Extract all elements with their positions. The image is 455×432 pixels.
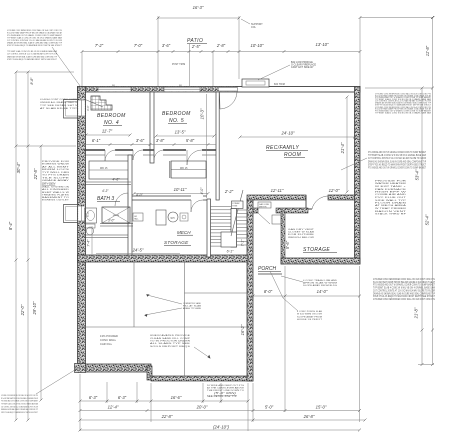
svg-text:RADON VENT: RADON VENT [375,210,407,213]
MAIN WALLS [75,79,361,381]
svg-text:W 2x4 KEYWAY DAMP PROOF BELOW: W 2x4 KEYWAY DAMP PROOF BELOW GRADE 4 DI… [373,281,435,284]
bedroom5 east wall [216,92,219,200]
ext line left [81,52,83,87]
svg-text:DRAINS AS SHOWN SEAL SLAB W CU: DRAINS AS SHOWN SEAL SLAB W CURE AND SEA… [368,160,426,163]
dim 2'-5" [191,44,201,49]
svg-text:COL: COL [251,27,257,29]
stair treads right run [237,210,248,245]
MECH equipment [156,210,188,225]
dim 53'-4" rotated [415,169,420,180]
east wall dim 16'-2" rotated [240,324,245,335]
mech room dim 24'-5" [96,248,180,254]
svg-text:FTG INSIDE AND OUT W GRAVEL CO: FTG INSIDE AND OUT W GRAVEL COVER CONN T… [373,284,435,287]
svg-text:FTG INSIDE AND OUT W GRAVEL CO: FTG INSIDE AND OUT W GRAVEL COVER CONN T… [368,167,426,170]
svg-text:3'-8": 3'-8" [156,138,165,143]
svg-text:SLOPE AWAY FROM BLDG: SLOPE AWAY FROM BLDG [303,284,337,287]
linen wall [84,178,131,194]
left top connector y72 [16,71,74,73]
ROOM LABELS [97,38,337,346]
svg-text:8'-0": 8'-0" [264,289,273,294]
svg-text:21'-8": 21'-8" [414,307,419,319]
left top rotated dim [30,77,34,85]
tall cab [133,213,143,221]
note bottom N2 [207,384,245,398]
left exterior wall [78,87,86,373]
left wall window bath [78,206,85,221]
support col note [241,19,263,29]
bottom-right exterior wall [151,376,253,381]
note topleft A leader [52,47,83,90]
svg-text:STORAGE: STORAGE [303,247,330,253]
svg-text:WATER HEATER: WATER HEATER [375,182,407,185]
INTERIOR WALLS [84,92,219,257]
svg-text:CUT CONTROL JOINTS AT 12-0 OC: CUT CONTROL JOINTS AT 12-0 OC MAX EA WAY… [7,53,57,56]
svg-text:2'-8": 2'-8" [216,43,226,48]
stair top box STAIR TRIM [232,201,244,209]
svg-text:15'-0": 15'-0" [316,405,327,410]
svg-text:13'-10": 13'-10" [316,42,330,47]
svg-text:TALL: TALL [134,218,139,221]
svg-text:W 2x4 KEYWAY DAMP PROOF BELOW: W 2x4 KEYWAY DAMP PROOF BELOW GRADE 4 DI… [1,397,38,400]
bath bottom wall [84,235,128,238]
svg-text:DRY-DEN: DRY-DEN [42,181,56,185]
BOTTOM DIMENSION ROWS [79,266,367,432]
closet labels [100,168,188,170]
svg-text:7'-2": 7'-2" [95,43,104,48]
svg-text:AT MECH AREA: AT MECH AREA [375,204,407,207]
svg-text:AREAS TYP HERE: AREAS TYP HERE [183,307,201,310]
dim 22'-8" rotated [33,168,38,180]
svg-text:NO. 4: NO. 4 [104,120,119,126]
svg-text:REC/FAMILY: REC/FAMILY [266,145,299,151]
dim row4 [79,425,362,432]
svg-text:PVC FLUE OUT: PVC FLUE OUT [375,197,407,199]
room label STORAGE (right) [303,247,337,253]
svg-text:22'-0": 22'-0" [20,304,25,316]
svg-text:TYP SEE DETAIL SHT 5: TYP SEE DETAIL SHT 5 [40,104,78,107]
svg-text:22'-8": 22'-8" [161,414,173,419]
svg-text:4 HIGH CONT CONC CURB: 4 HIGH CONT CONC CURB [40,99,78,101]
PATIO OUTLINE [157,5,285,86]
note bottom N1 [150,334,191,348]
svg-text:GAS DRY VENT: GAS DRY VENT [288,228,315,231]
toilet [85,224,95,235]
water softener box in storage [272,215,281,224]
porch dim 8'-0" [252,289,287,298]
svg-text:4 POURED CONC REINFORCED CONC: 4 POURED CONC REINFORCED CONC WALL ON 16… [1,394,38,397]
top dim line [81,50,362,53]
closet door arc 1 [133,150,143,160]
svg-text:SEE DETAIL 3/S2 TYP: SEE DETAIL 3/S2 TYP [207,395,237,398]
patio left line [157,16,159,86]
svg-text:UNEXCAVATED PROVIDE: UNEXCAVATED PROVIDE [150,334,191,337]
svg-text:TO 95 PROCTOR UNDER: TO 95 PROCTOR UNDER [150,341,190,343]
rec room height dim rotated [340,96,349,194]
svg-text:STEP FTGS AS REQD TO MAINTAIN: STEP FTGS AS REQD TO MAINTAIN FROST DEPT… [373,295,435,298]
stair west dim 4'-0" rotated [200,187,204,195]
svg-text:CANT EXT SIDE W/: CANT EXT SIDE W/ [291,66,314,69]
note porch slab [297,310,323,321]
storage dim 12'-0" [329,188,340,193]
rotated window dim bedroom4 [86,105,90,111]
svg-text:W EXP TANK +: W EXP TANK + [375,185,407,188]
note left wall curb [40,99,78,110]
window well bath [64,205,78,223]
svg-text:6'-3": 6'-3" [89,395,98,400]
svg-text:COMPACTED SAND: COMPACTED SAND [183,302,201,305]
furnace box [156,210,166,225]
bedroom4 window [98,85,131,92]
dim 8'-4" rotated [8,221,13,230]
masonry chunk in bedroom4 [84,96,112,110]
rotated window dim bath [86,211,90,217]
svg-text:12'-11": 12'-11" [271,188,284,193]
interior line vertical b [184,262,186,376]
right top dim line [359,16,435,19]
dim row3 [79,414,367,422]
shower [102,207,130,223]
mech north wall [132,196,207,200]
svg-text:AT SLAB EDGE TYP: AT SLAB EDGE TYP [40,107,78,110]
svg-text:STRAW: STRAW [232,202,239,205]
stair width dim [224,189,234,194]
svg-text:BSMT WALLS W: BSMT WALLS W [42,191,70,194]
svg-text:PROVIDE FOR: PROVIDE FOR [375,181,407,183]
top exterior wall (bedroom side, concrete) [78,87,238,93]
right ext vertical at x360 [359,18,361,87]
svg-text:10'-10": 10'-10" [251,43,265,48]
svg-text:TYP BSMT SLAB 4 CONC W 6 MIL V: TYP BSMT SLAB 4 CONC W 6 MIL VB ON 4 GRA… [375,111,431,114]
dim 30'-4" rotated [16,162,21,173]
rec room width dim [239,131,357,139]
svg-text:STEP FTGS AS REQD TO MAINTAIN: STEP FTGS AS REQD TO MAINTAIN FROST DEPT… [7,58,57,61]
svg-text:TYP BSMT SLAB 4 CONC W 6 MIL V: TYP BSMT SLAB 4 CONC W 6 MIL VB ON 4 GRA… [7,50,58,53]
note right R1 [375,93,432,115]
patio right line [238,16,240,79]
svg-text:O CLEAR FIREPLACE: O CLEAR FIREPLACE [291,64,317,67]
svg-text:36x36: 36x36 [113,215,120,217]
LOWER AREA LINES [80,262,248,376]
svg-text:CUT CONTROL JOINTS AT 12-0 OC: CUT CONTROL JOINTS AT 12-0 OC MAX EA WAY… [1,405,38,408]
note right R4 [373,278,436,301]
note fireplace [291,62,317,69]
fireplace bump [242,79,269,87]
svg-text:5'-0": 5'-0" [265,405,274,410]
unexcavated label [100,334,118,346]
svg-text:CLOSET W SLAB: CLOSET W SLAB [288,231,315,234]
svg-text:PROVIDE FOR: PROVIDE FOR [42,161,70,163]
svg-text:6'-1": 6'-1" [92,138,101,143]
svg-text:CUT CONTROL JOINTS AT 12-0 OC: CUT CONTROL JOINTS AT 12-0 OC MAX EA WAY… [373,289,435,292]
gas line box [258,202,271,208]
dim row1 [79,395,250,403]
R2 leader [341,158,367,170]
svg-text:ALL FINISHED: ALL FINISHED [42,188,70,191]
svg-text:WALL SYSTEM ON: WALL SYSTEM ON [42,186,69,189]
rec room south wall west part [247,195,306,200]
svg-text:AT THE CANTILEVER ABOVE: AT THE CANTILEVER ABOVE [207,387,245,390]
interior line vertical a [133,262,135,327]
svg-text:16'-2": 16'-2" [240,324,245,335]
svg-text:16'-3": 16'-3" [193,5,204,10]
svg-text:2'-2": 2'-2" [224,189,234,194]
BATH FIXTURES [84,178,144,238]
interior line horizontal b [185,292,248,294]
bottom wall step connector [147,366,152,380]
svg-text:3'-6": 3'-6" [136,138,145,143]
svg-text:DRAINS AS SHOWN SEAL SLAB W CU: DRAINS AS SHOWN SEAL SLAB W CURE AND SEA… [1,408,38,411]
svg-text:APRON SLAB W WWM: APRON SLAB W WWM [303,282,337,285]
svg-text:METER: METER [259,206,267,208]
svg-text:BEDROOM: BEDROOM [97,113,126,119]
svg-text:TYP BSMT SLAB 4 CONC W 6 MIL V: TYP BSMT SLAB 4 CONC W 6 MIL VB ON 4 GRA… [373,287,436,290]
svg-text:DRAINS AS SHOWN SEAL SLAB W CU: DRAINS AS SHOWN SEAL SLAB W CURE AND SEA… [7,55,57,58]
svg-text:BEDROOM: BEDROOM [162,111,191,117]
bedroom5 door arc [187,150,202,165]
svg-text:WD 15: WD 15 [180,168,188,170]
svg-text:STEP FTGS AS REQD TO MAINTAIN: STEP FTGS AS REQD TO MAINTAIN FROST DEPT… [368,163,426,166]
dim row2 [79,405,362,413]
note trash [303,279,337,287]
room label BEDROOM NO.4 [97,113,126,126]
left dim line x41 [40,145,43,402]
corridor dim rotated 10'-3" [200,94,207,198]
fireplace leader [258,65,290,80]
top exterior wall (rec room side, framed) [237,87,360,93]
svg-text:(24'-10"): (24'-10") [213,425,229,430]
svg-text:HOUSE 1/4 PER FT: HOUSE 1/4 PER FT [297,319,323,321]
left wall window bedroom4 [78,100,85,116]
bedroom5 width dim [155,130,216,138]
storage inner west wall [281,211,285,264]
svg-text:11'-8": 11'-8" [425,45,430,56]
svg-text:4 CONC PORCH SLAB: 4 CONC PORCH SLAB [297,310,322,313]
svg-text:RO: RO [179,85,183,87]
svg-text:4 POURED CONC REINFORCED CONC: 4 POURED CONC REINFORCED CONC WALL ON 16… [373,298,435,301]
svg-text:CLEAN SAND FILL COMP: CLEAN SAND FILL COMP [150,337,191,340]
svg-text:WENCH BELOW: WENCH BELOW [288,237,315,239]
svg-text:WH: WH [171,218,175,220]
room label REC/FAMILY ROOM [266,145,308,158]
svg-text:CAR FILL: CAR FILL [100,342,113,346]
bedroom4 door arc [105,150,116,161]
note right R3 [375,181,408,216]
svg-text:12'-4": 12'-4" [108,405,119,410]
dim 3'-0" [162,43,171,48]
N1 leader [194,347,211,359]
porch leader [270,271,298,311]
dim 7'-2" [95,43,104,48]
svg-text:4'-6": 4'-6" [112,178,120,182]
svg-text:W TRAP PRIMER: W TRAP PRIMER [375,207,407,210]
stair center divider [231,209,237,248]
mid horizontal wall (unexcavated separation) [78,255,249,262]
bottom-left corner block [75,364,86,373]
svg-text:8'-8": 8'-8" [30,77,34,85]
bedrooms south wall [84,150,216,155]
svg-text:14'-0": 14'-0" [317,289,328,294]
closet west wall [170,161,172,178]
svg-text:WD 15: WD 15 [100,168,108,170]
right dim line x422 [418,87,434,367]
svg-text:4 CONC TRASH LINE AND: 4 CONC TRASH LINE AND [303,279,337,282]
svg-text:ALL SLABS TYP SEE: ALL SLABS TYP SEE [150,342,191,345]
svg-text:STORAGE: STORAGE [164,240,189,245]
shower south wall [100,224,133,227]
note topleft A [7,29,63,47]
svg-text:6'-3": 6'-3" [118,395,127,400]
STAIRS [211,190,248,247]
room label MECH [177,230,193,235]
patio width dim 16'-3" [157,5,241,20]
floor drain [180,213,188,221]
note gas vent [288,228,315,239]
bedroom divider wall [150,92,154,163]
note topleft B [7,50,58,61]
bottom-left leader [36,368,78,394]
svg-text:FLOOR DRAIN: FLOOR DRAIN [375,202,407,205]
svg-text:FTG INSIDE AND OUT W GRAVEL CO: FTG INSIDE AND OUT W GRAVEL COVER CONN T… [368,151,426,154]
storage dim 12'-11" [271,188,284,193]
bath dim 4'-0" [136,193,144,197]
svg-text:4'-0": 4'-0" [200,187,204,195]
bath east wall [128,155,132,255]
svg-text:STEP FTGS AS REQD TO MAINTAIN: STEP FTGS AS REQD TO MAINTAIN FROST DEPT… [7,44,62,47]
svg-text:10'-3": 10'-3" [200,108,205,119]
svg-text:30'-4": 30'-4" [16,162,21,173]
dim 2'-8" [216,43,226,48]
note right R2 [368,151,427,170]
dim 29'-10" rotated [32,301,37,316]
svg-text:COMB AIR AND: COMB AIR AND [375,193,407,196]
svg-text:ROOM: ROOM [284,152,302,158]
svg-text:5'-8": 5'-8" [186,138,195,143]
stair west wall [207,199,211,257]
post trim note [172,64,185,66]
left connector y146 [16,145,76,147]
window well bedroom4 [64,100,78,119]
svg-text:DRAINS AS SHOWN SEAL SLAB W CU: DRAINS AS SHOWN SEAL SLAB W CURE AND SEA… [373,292,435,295]
svg-text:26'-8": 26'-8" [303,414,315,419]
svg-text:4'-3": 4'-3" [102,189,109,193]
svg-text:STEP FTGS AS REQD TO MAINTAIN: STEP FTGS AS REQD TO MAINTAIN FROST DEPT… [1,411,38,414]
svg-text:10'-11": 10'-11" [174,187,187,192]
svg-text:TRIM: TRIM [232,206,237,208]
svg-text:TYP BSMT SLAB 4 CONC W 6 MIL V: TYP BSMT SLAB 4 CONC W 6 MIL VB ON 4 GRA… [368,154,427,157]
svg-text:7'-0": 7'-0" [134,43,143,48]
svg-text:AT ALL BSMT: AT ALL BSMT [42,165,70,168]
svg-text:7'-1": 7'-1" [241,239,245,247]
storage door leaf [258,213,270,224]
porch dim 14'-0" [285,289,361,298]
room label PORCH [258,266,281,272]
svg-text:29'-10": 29'-10" [32,301,37,316]
right exterior wall [355,87,361,265]
porch step edge [258,273,282,275]
RIGHT DIMENSION COLUMN [365,16,434,366]
svg-text:3'-6": 3'-6" [162,43,171,48]
svg-text:MECH: MECH [177,230,191,235]
svg-text:5'-0": 5'-0" [86,211,90,217]
note left column [42,161,70,202]
patio inner line b [212,51,214,86]
svg-text:20'-0": 20'-0" [196,405,208,410]
svg-text:EGRESS WNDW: EGRESS WNDW [42,164,70,166]
svg-text:HIGH EFF W: HIGH EFF W [375,192,408,194]
trash leader [281,276,303,282]
stair diagonal [231,190,243,236]
LEFT DIMENSION COLUMN [8,71,76,422]
svg-text:PORCH: PORCH [258,266,276,272]
svg-text:24'-5": 24'-5" [132,248,144,253]
svg-text:3'-0": 3'-0" [108,219,115,223]
right dim line x432.5 [431,16,434,366]
ext verticals [80,266,360,431]
svg-text:FILL AT SLAB: FILL AT SLAB [183,305,202,308]
stair bottom dim 6'-1" [227,250,235,254]
svg-text:TREATED PLATES: TREATED PLATES [42,193,70,196]
svg-text:PAN FURNACE: PAN FURNACE [375,188,407,191]
patio inner line a [189,44,191,86]
right horiz connector at y88 [365,87,433,89]
svg-text:6'-1": 6'-1" [227,250,235,254]
svg-text:TYP WELL DRN: TYP WELL DRN [42,172,69,174]
center leaders [144,294,182,317]
bath door arc [115,193,128,206]
svg-text:BATH 3: BATH 3 [97,196,114,202]
svg-text:SLOPE AWAY FROM: SLOPE AWAY FROM [297,315,322,318]
svg-text:53'-4": 53'-4" [415,169,420,180]
interior line horizontal a [80,326,248,328]
rec south wall door recess [306,195,329,209]
note bottom-left corner [1,394,38,414]
mech door arc [191,200,203,212]
svg-text:24'-10": 24'-10" [281,131,296,136]
svg-text:SOILS REPORT REQS: SOILS REPORT REQS [150,346,191,348]
svg-text:7'-4": 7'-4" [87,239,91,247]
svg-text:CUT CONTROL JOINTS AT 12-0 OC: CUT CONTROL JOINTS AT 12-0 OC MAX EA WAY… [368,157,426,160]
svg-text:NO. 5: NO. 5 [169,118,184,124]
svg-text:11'-7": 11'-7" [102,129,113,134]
stair treads left run [211,207,232,247]
left dim line x28 [27,71,30,422]
dim 11'-8" rotated [425,45,430,56]
sink counter [85,208,97,223]
INTERIOR DIMENSIONS [83,94,362,335]
svg-text:22'-8": 22'-8" [33,168,38,180]
svg-text:52'-4": 52'-4" [425,214,430,225]
room label STORAGE (mech) [164,240,191,246]
room label BEDROOM NO.5 [162,111,191,124]
note center arrows [183,302,202,310]
svg-text:12'-0": 12'-0" [329,188,340,193]
hall width dim [133,187,210,195]
svg-text:5'-6": 5'-6" [285,240,290,249]
east exterior wall lower [247,199,253,381]
dim 22'-0" rotated [20,304,25,316]
bedroom4 width dim [85,129,132,137]
svg-text:UNDER ALL FRAME WALLS: UNDER ALL FRAME WALLS [40,101,78,104]
bedroom5 window [164,85,200,92]
svg-text:TYP BSMT SLAB 4 CONC W 6 MIL V: TYP BSMT SLAB 4 CONC W 6 MIL VB ON 4 GRA… [1,403,38,406]
svg-text:10 WIDE AND DEEP CUT FTG: 10 WIDE AND DEEP CUT FTG [207,384,244,387]
svg-text:STACK THRU RF: STACK THRU RF [375,213,407,216]
svg-text:BASEMENT TO: BASEMENT TO [42,196,69,199]
svg-text:13'-5": 13'-5" [175,130,186,135]
dim 52'-4" rotated [425,214,430,225]
storage north wall [253,208,308,213]
dim 21'-8" rotated [414,307,419,319]
